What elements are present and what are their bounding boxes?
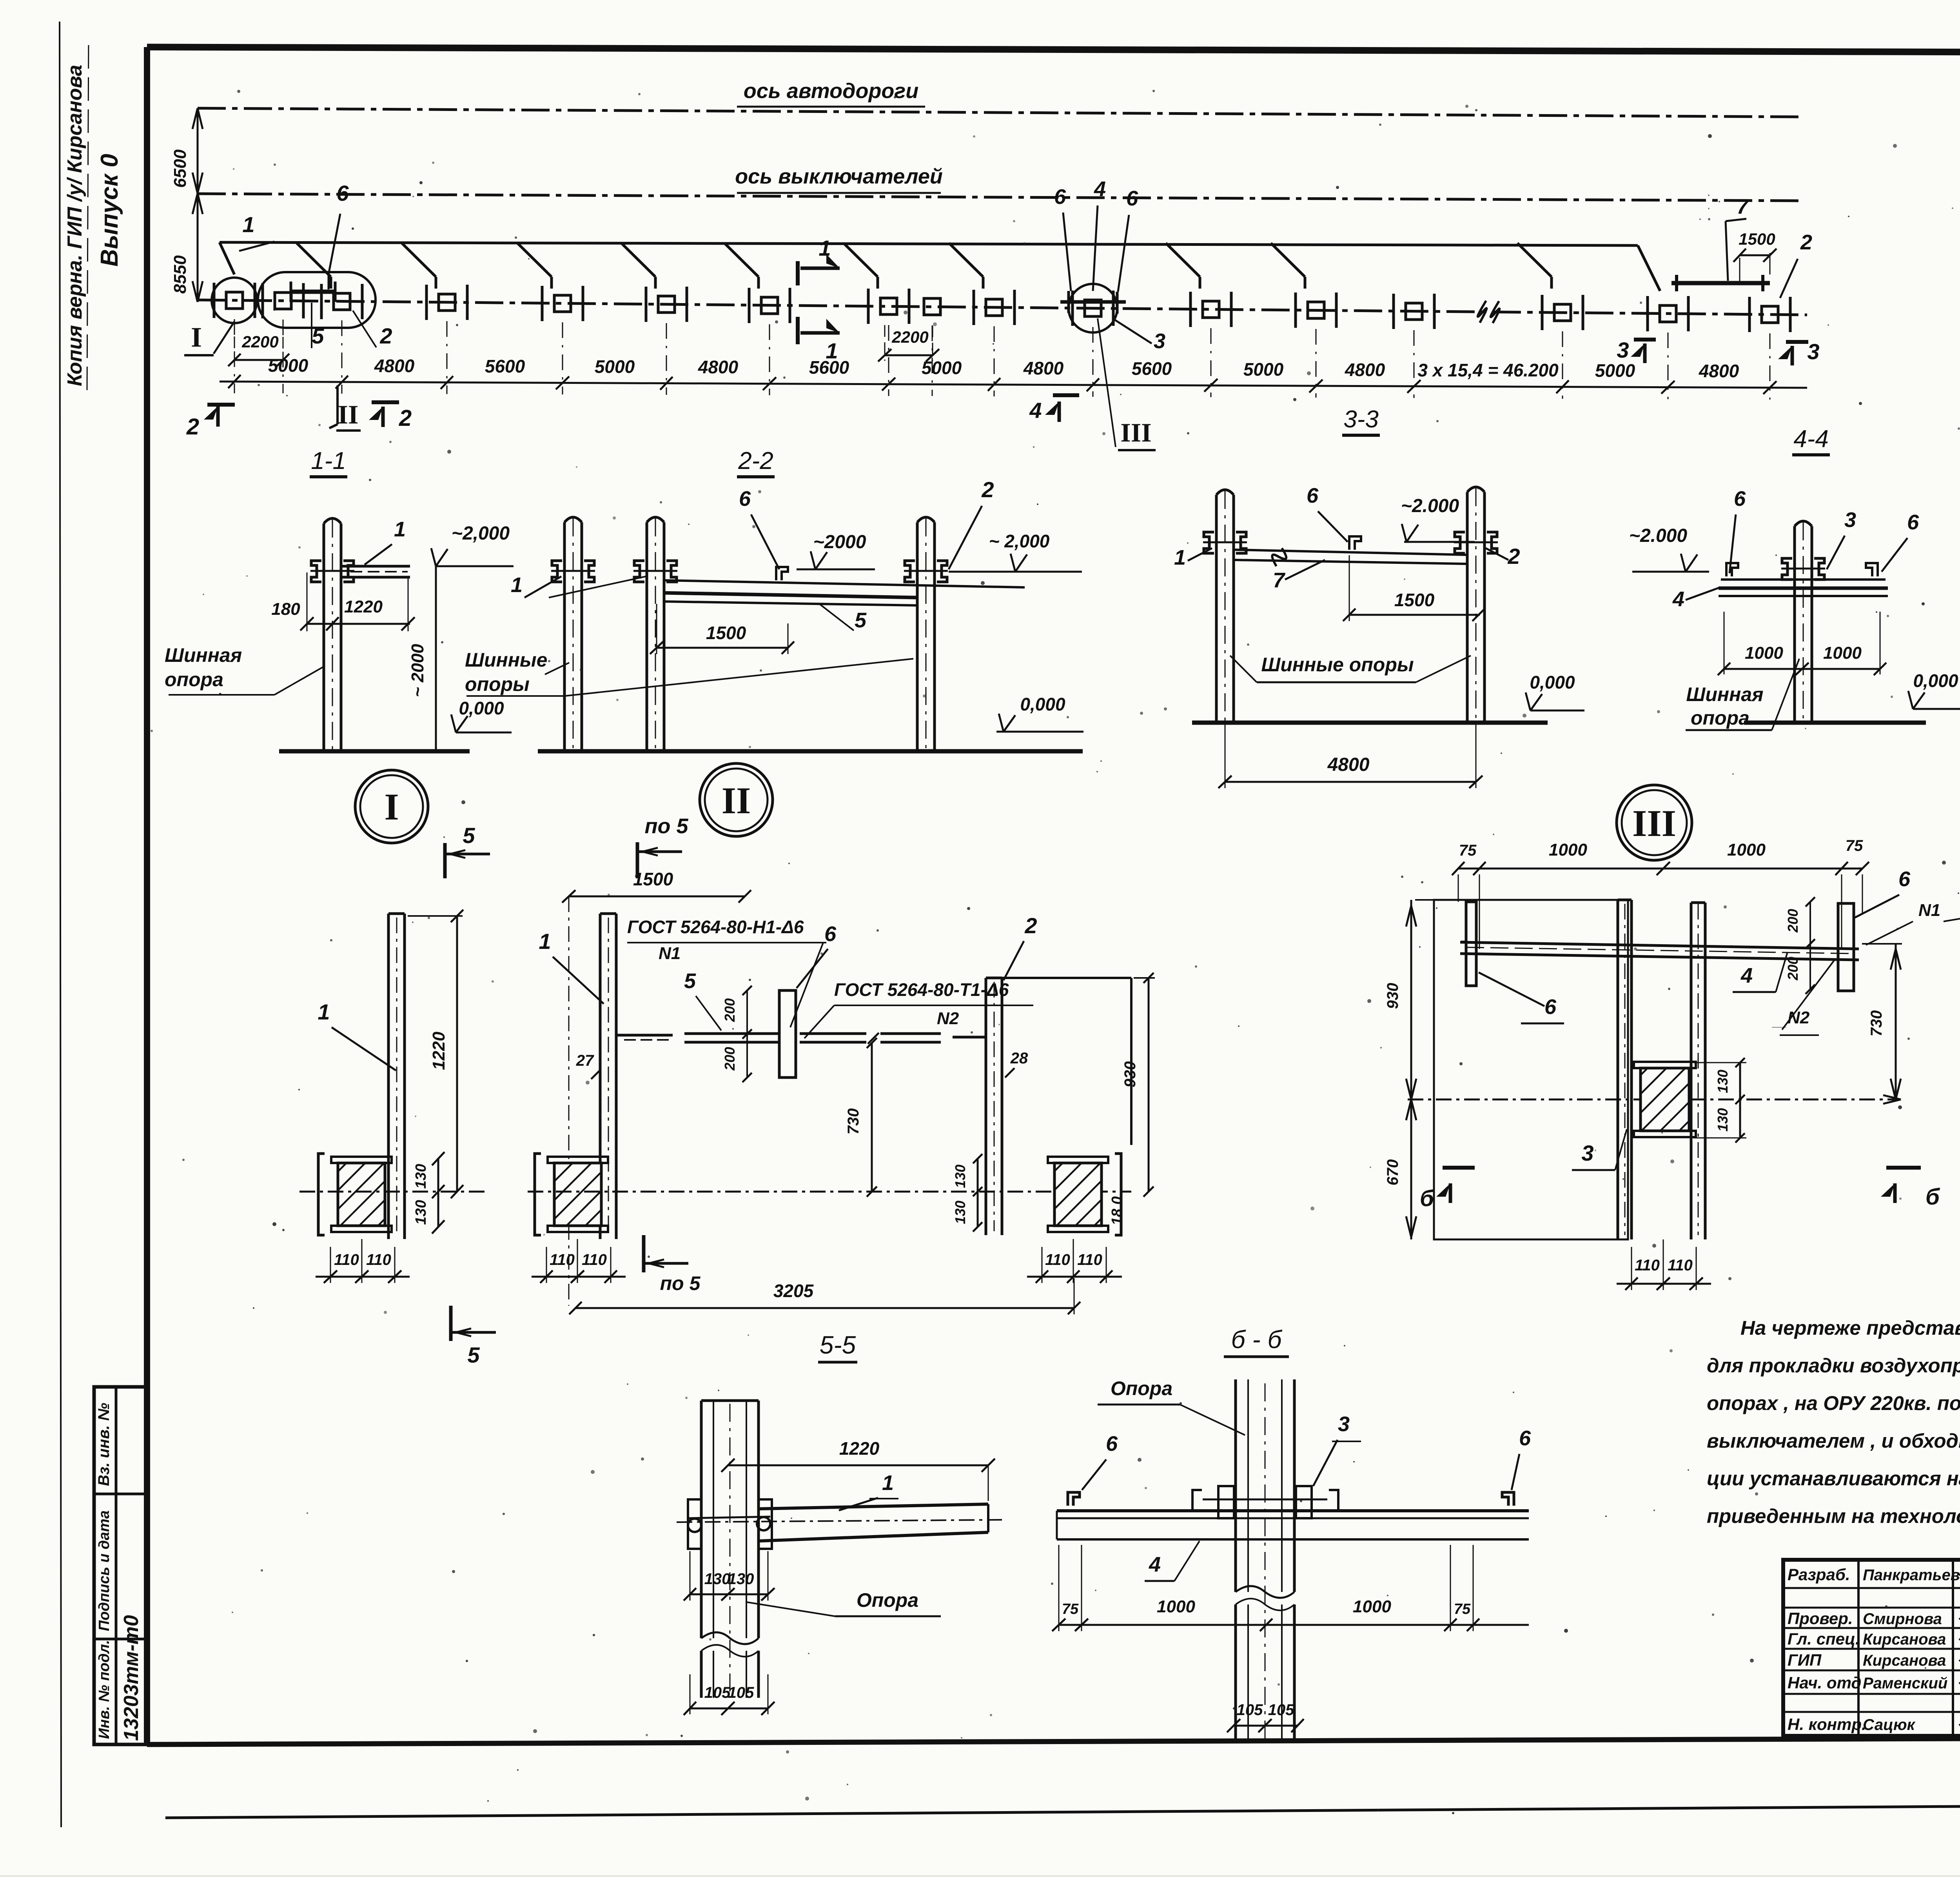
svg-text:ГОСТ 5264-80-Т1-Δ6: ГОСТ 5264-80-Т1-Δ6 [834,979,1009,1000]
svg-text:75: 75 [1846,837,1863,854]
svg-text:6: 6 [1054,185,1066,209]
svg-text:5: 5 [855,609,867,632]
svg-text:по 5: по 5 [644,814,688,838]
svg-text:5: 5 [312,323,324,348]
svg-text:180: 180 [271,600,300,619]
svg-text:930: 930 [1384,983,1401,1009]
svg-text:1-1: 1-1 [311,447,346,474]
svg-text:3205: 3205 [773,1281,814,1301]
svg-text:27: 27 [576,1052,594,1069]
svg-text:6: 6 [824,922,837,946]
svg-text:Инв. № подл.: Инв. № подл. [96,1640,113,1739]
svg-text:3: 3 [1844,508,1856,532]
svg-text:Шинная: Шинная [165,644,242,666]
svg-text:2-2: 2-2 [738,447,773,474]
svg-text:Нач. отд: Нач. отд [1788,1673,1861,1692]
svg-text:1: 1 [1174,546,1186,569]
svg-text:Панкратьева: Панкратьева [1863,1566,1960,1584]
svg-text:1: 1 [539,929,551,954]
svg-text:~ 2000: ~ 2000 [408,644,427,697]
svg-text:5: 5 [467,1343,480,1367]
svg-text:~2,000: ~2,000 [452,523,510,544]
svg-text:1: 1 [826,338,838,363]
svg-text:2: 2 [1507,544,1520,569]
svg-text:4800: 4800 [374,356,415,376]
svg-text:670: 670 [1384,1159,1401,1186]
svg-text:Кирсанова: Кирсанова [1863,1652,1946,1669]
svg-text:Выпуск 0: Выпуск 0 [96,154,123,267]
svg-text:Разраб.: Разраб. [1788,1565,1850,1584]
svg-text:1000: 1000 [1157,1597,1195,1616]
svg-text:ось выключателей: ось выключателей [735,165,943,188]
svg-text:130: 130 [704,1570,731,1588]
svg-text:Н. контр.: Н. контр. [1788,1715,1866,1733]
svg-text:4: 4 [1094,177,1106,201]
svg-text:2: 2 [379,323,392,348]
svg-text:130: 130 [1715,1108,1731,1132]
svg-text:0,000: 0,000 [1913,670,1958,691]
svg-text:На чертеже представлена мо: На чертеже представлена монтажная схема … [1740,1317,1960,1339]
svg-text:1500: 1500 [633,869,673,889]
svg-text:~2.000: ~2.000 [1629,525,1687,546]
svg-text:200: 200 [722,998,738,1022]
svg-text:1000: 1000 [1549,840,1587,859]
svg-text:для прокладки воздухопроводо: для прокладки воздухопроводов , устанавл… [1707,1354,1960,1377]
svg-text:5: 5 [684,969,696,993]
svg-text:5000: 5000 [1595,360,1635,381]
svg-text:4-4: 4-4 [1793,425,1829,452]
svg-text:6: 6 [1544,995,1557,1019]
svg-text:ГИП: ГИП [1788,1651,1822,1669]
svg-text:1500: 1500 [706,623,746,643]
svg-text:6: 6 [1907,511,1919,534]
svg-text:Копия верна. ГИП /у/ Кирсанова: Копия верна. ГИП /у/ Кирсанова [64,65,86,386]
svg-text:Вз. инв. №: Вз. инв. № [95,1403,113,1486]
svg-text:опора: опора [1691,707,1749,729]
svg-text:Сацюк: Сацюк [1863,1716,1916,1733]
svg-text:200: 200 [1785,957,1801,981]
svg-text:2: 2 [186,414,199,440]
svg-text:N2: N2 [937,1009,959,1028]
svg-text:730: 730 [1868,1010,1885,1037]
svg-text:730: 730 [845,1108,862,1135]
svg-text:выключателем , и обходная с: выключателем , и обходная система шин. “… [1707,1430,1960,1452]
svg-text:7: 7 [1737,195,1749,218]
svg-text:3 x 15,4 = 46.200: 3 x 15,4 = 46.200 [1417,360,1559,380]
svg-text:1220: 1220 [839,1438,880,1459]
svg-text:5000: 5000 [268,355,309,376]
svg-text:5600: 5600 [485,356,525,376]
svg-text:6: 6 [739,487,751,511]
svg-text:4: 4 [1149,1553,1161,1576]
svg-text:200: 200 [722,1047,738,1071]
svg-text:I: I [384,786,399,828]
svg-text:ось автодороги: ось автодороги [744,79,918,103]
svg-text:~2000: ~2000 [813,532,866,552]
svg-text:110: 110 [550,1251,575,1268]
svg-text:75: 75 [1459,842,1477,859]
svg-text:110: 110 [1668,1257,1693,1274]
svg-text:Раменский: Раменский [1863,1675,1947,1692]
svg-text:0,000: 0,000 [1530,672,1575,692]
svg-text:Смирнова: Смирнова [1863,1610,1942,1628]
svg-text:опоры: опоры [465,673,530,695]
svg-text:ГОСТ 5264-80-Н1-Δ6: ГОСТ 5264-80-Н1-Δ6 [627,917,804,937]
svg-text:~ 2,000: ~ 2,000 [989,531,1050,551]
svg-text:1000: 1000 [1745,643,1783,663]
svg-text:~2.000: ~2.000 [1401,496,1459,516]
svg-text:III: III [1120,418,1151,447]
svg-text:II: II [722,780,751,821]
svg-text:б - б: б - б [1231,1325,1283,1354]
svg-text:105: 105 [704,1684,731,1701]
svg-text:5600: 5600 [1132,358,1172,379]
svg-text:110: 110 [334,1251,359,1268]
svg-text:75: 75 [1062,1601,1079,1617]
svg-text:930: 930 [1122,1061,1139,1088]
svg-text:3-3: 3-3 [1343,406,1379,433]
svg-text:2: 2 [1024,913,1037,938]
svg-text:4: 4 [1672,587,1684,611]
svg-text:1500: 1500 [1739,230,1775,248]
svg-text:130: 130 [952,1201,968,1224]
svg-text:2: 2 [399,405,412,431]
svg-text:6: 6 [1126,187,1138,210]
svg-text:105: 105 [728,1684,754,1701]
svg-text:13203тм-т0: 13203тм-т0 [120,1615,143,1741]
svg-text:1: 1 [242,212,254,237]
svg-text:б: б [1926,1184,1940,1210]
svg-text:3: 3 [1807,339,1819,364]
svg-text:по 5: по 5 [660,1272,701,1294]
svg-text:ции устанавливаются на от: ции устанавливаются на отметках , соотве… [1707,1467,1960,1490]
svg-text:Гл. спец.: Гл. спец. [1788,1630,1860,1648]
svg-text:Опора: Опора [857,1589,918,1611]
svg-text:130: 130 [728,1570,754,1588]
svg-text:1: 1 [511,573,523,597]
svg-text:110: 110 [1077,1251,1102,1268]
svg-text:110: 110 [1635,1257,1660,1274]
svg-text:105: 105 [1237,1701,1263,1719]
svg-text:1000: 1000 [1727,840,1766,859]
svg-text:130: 130 [1715,1070,1731,1093]
svg-text:3: 3 [1338,1412,1350,1436]
svg-text:Провер.: Провер. [1788,1609,1853,1628]
svg-text:5000: 5000 [1243,359,1284,380]
svg-text:4800: 4800 [1345,360,1385,380]
svg-text:75: 75 [1454,1601,1471,1617]
svg-text:4: 4 [1029,398,1042,423]
svg-text:Кирсанова: Кирсанова [1863,1631,1946,1648]
svg-text:110: 110 [582,1251,607,1268]
svg-text:1: 1 [818,236,831,260]
svg-text:0,000: 0,000 [1020,694,1065,714]
svg-text:6: 6 [1519,1426,1531,1450]
svg-text:18 0: 18 0 [1109,1196,1125,1225]
svg-text:4800: 4800 [698,357,739,377]
svg-text:1: 1 [394,518,406,541]
svg-text:3: 3 [1617,338,1629,362]
svg-text:4: 4 [1740,964,1753,987]
svg-text:7: 7 [1273,569,1286,592]
svg-text:2: 2 [1800,231,1812,254]
svg-text:1: 1 [318,999,330,1024]
svg-text:2200: 2200 [891,328,928,346]
svg-text:б: б [1420,1186,1435,1211]
svg-text:2: 2 [981,477,994,502]
svg-text:130: 130 [952,1165,968,1188]
svg-text:опора: опора [165,669,223,690]
svg-text:II: II [338,400,359,429]
svg-text:III: III [1632,802,1676,844]
svg-text:6: 6 [1734,487,1746,511]
svg-text:6: 6 [1898,867,1911,891]
svg-text:4800: 4800 [1023,358,1064,378]
svg-text:4800: 4800 [1699,361,1739,381]
svg-text:3: 3 [1154,329,1165,353]
svg-text:130: 130 [413,1200,429,1225]
svg-text:6500: 6500 [171,149,190,188]
svg-text:Подпись и дата: Подпись и дата [96,1510,113,1631]
svg-text:0,000: 0,000 [459,698,504,718]
svg-text:6: 6 [336,181,349,205]
svg-text:105: 105 [1268,1701,1294,1719]
svg-text:8550: 8550 [171,255,190,294]
svg-text:1220: 1220 [429,1032,448,1070]
svg-text:Шинная: Шинная [1686,683,1763,705]
svg-text:1500: 1500 [1394,590,1435,610]
svg-text:I: I [191,322,202,353]
svg-text:N1: N1 [659,944,681,963]
svg-text:6: 6 [1106,1432,1118,1455]
svg-text:опорах , на ОРУ 220кв. по с: опорах , на ОРУ 220кв. по схеме: „ Одна … [1707,1392,1960,1414]
svg-text:N1: N1 [1918,901,1940,920]
svg-text:110: 110 [366,1251,391,1268]
svg-text:4800: 4800 [1327,754,1370,775]
svg-text:1220: 1220 [344,597,383,616]
svg-text:130: 130 [413,1164,429,1188]
svg-text:3: 3 [1581,1141,1593,1165]
svg-text:приведенным на технологиче: приведенным на технологическом чертеже. [1707,1505,1960,1527]
svg-text:5000: 5000 [595,356,635,377]
svg-text:1: 1 [882,1471,894,1495]
svg-text:6: 6 [1307,484,1319,507]
svg-text:2200: 2200 [241,333,278,351]
svg-text:1000: 1000 [1353,1597,1391,1616]
svg-text:5: 5 [463,823,475,848]
svg-text:Шинные: Шинные [465,649,547,671]
svg-text:1000: 1000 [1823,643,1862,663]
svg-text:110: 110 [1045,1251,1070,1268]
svg-text:200: 200 [1785,909,1801,933]
svg-text:Шинные опоры: Шинные опоры [1261,654,1414,676]
svg-text:28: 28 [1010,1050,1028,1067]
svg-text:Опора: Опора [1111,1377,1172,1399]
svg-text:5-5: 5-5 [820,1331,856,1359]
